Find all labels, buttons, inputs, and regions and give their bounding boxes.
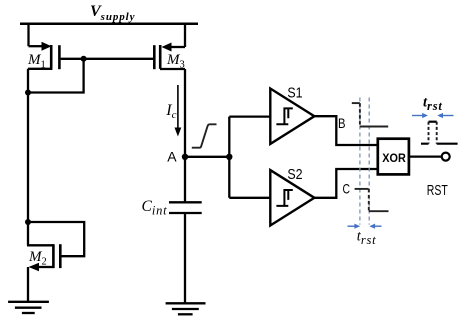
- wire C (S2 to XOR): [314, 169, 377, 198]
- waveform C: [355, 188, 369, 190]
- RST pulse waveform: [421, 143, 458, 145]
- wire to S1 input: [229, 115, 270, 117]
- V_supply rail: [20, 23, 198, 26]
- t_rst arrows top: [412, 113, 454, 118]
- svg-text:RST: RST: [427, 182, 448, 199]
- svg-text:A: A: [167, 149, 177, 165]
- svg-text:B: B: [338, 115, 346, 131]
- timing dashed line 1: [359, 98, 361, 225]
- timing dashed line 2: [368, 98, 370, 225]
- wire node A to branch: [185, 156, 230, 158]
- node A dot: [182, 154, 188, 160]
- branch vertical wire: [228, 117, 230, 198]
- waveform B: [352, 102, 360, 104]
- schmitt trigger S1: [270, 89, 314, 144]
- capacitor C_int: [169, 202, 202, 213]
- svg-text:C: C: [343, 180, 351, 196]
- branch junction dot: [226, 154, 232, 160]
- wire B (S1 to XOR): [314, 116, 377, 145]
- wire cap to ground: [184, 213, 186, 303]
- transistor M3: [154, 23, 185, 69]
- ground left: [8, 302, 49, 313]
- slew-rate symbol: [192, 124, 217, 147]
- junction dot M2 gate tie: [25, 219, 31, 225]
- output terminal circle: [442, 153, 450, 161]
- left rail wire: [27, 69, 29, 246]
- svg-text:XOR: XOR: [382, 153, 406, 165]
- S2 hysteresis symbol: [276, 190, 292, 206]
- current arrow I_c: [177, 85, 179, 129]
- xor gate: [378, 139, 409, 175]
- svg-text:S1: S1: [287, 84, 302, 101]
- t_rst arrows bottom: [348, 224, 382, 229]
- main vertical wire (M3 drain to cap): [184, 69, 186, 202]
- feedback wire gate to drain: [27, 59, 84, 93]
- wire to S2 input: [229, 197, 270, 199]
- junction dot gate tie: [81, 56, 87, 62]
- S1 hysteresis symbol: [276, 108, 292, 124]
- gate wire M1-M3: [61, 58, 154, 60]
- M2 gate wire: [28, 222, 84, 256]
- ground middle: [166, 303, 206, 314]
- output wire: [409, 155, 441, 157]
- junction dot left rail: [25, 90, 31, 96]
- transistor M1: [28, 23, 59, 69]
- svg-text:S2: S2: [287, 166, 302, 183]
- schmitt trigger S2: [270, 170, 314, 225]
- transistor M2: [27, 244, 60, 301]
